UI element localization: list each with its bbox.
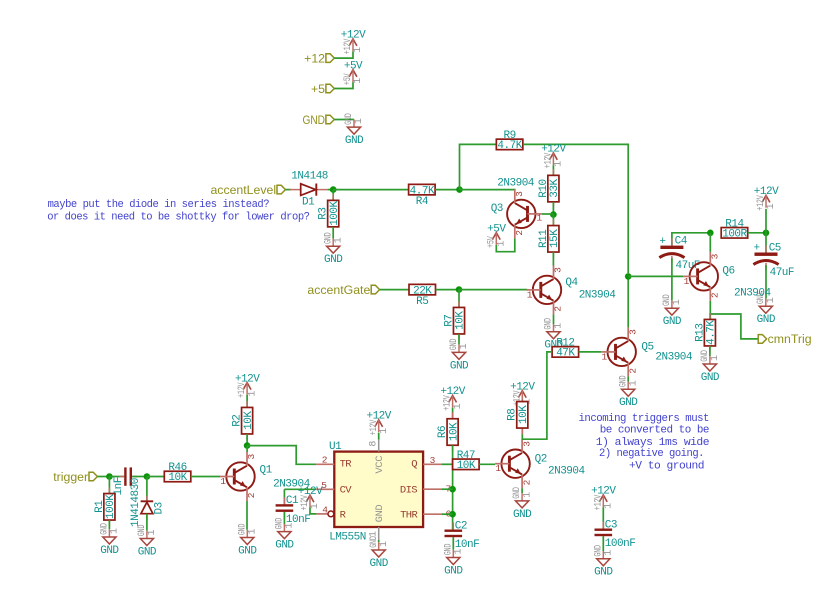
wire D1 cathode to node — [328, 189, 333, 191]
svg-text:GND: GND — [513, 509, 532, 521]
svg-text:GND: GND — [138, 546, 157, 558]
svg-text:2: 2 — [246, 492, 257, 498]
resistor R8 10K — [507, 395, 530, 434]
svg-text:GND: GND — [661, 294, 673, 306]
svg-text:GND: GND — [448, 339, 460, 351]
svg-text:C4: C4 — [675, 236, 688, 248]
svg-text:+: + — [753, 243, 759, 255]
wire R5 to node D — [436, 289, 460, 291]
wire accentGate to R5 — [380, 289, 409, 291]
svg-text:1: 1 — [220, 476, 226, 487]
wire C2 to ground — [452, 537, 454, 549]
op-amp U1 LM555N body — [329, 441, 423, 543]
svg-text:3: 3 — [246, 454, 257, 460]
svg-text:GND: GND — [617, 376, 629, 388]
svg-text:1) always 1ms wide: 1) always 1ms wide — [596, 437, 709, 449]
ground (Q2) — [511, 487, 533, 521]
wire +12V to R pin — [310, 508, 316, 514]
wire +12V to node — [765, 209, 767, 233]
svg-text:GND: GND — [322, 232, 334, 244]
ground (R1) — [98, 523, 120, 557]
svg-text:+V to ground: +V to ground — [629, 461, 704, 473]
wire C1 to CV pin — [284, 488, 316, 490]
wire +5 label to +5V rail — [334, 82, 353, 88]
svg-text:2N3904: 2N3904 — [734, 288, 772, 300]
wire DIS pin to node — [441, 488, 452, 490]
svg-text:3: 3 — [710, 253, 721, 259]
note line 1 — [48, 199, 270, 211]
wire C4 bottom through row to ground — [671, 258, 673, 300]
svg-text:R3: R3 — [318, 207, 330, 219]
svg-text:2N3904: 2N3904 — [579, 290, 617, 302]
svg-text:3: 3 — [521, 441, 532, 447]
svg-text:C5: C5 — [769, 243, 781, 255]
note incoming line 3 — [596, 437, 709, 449]
wire node E down to R1 — [108, 477, 110, 494]
svg-text:GND: GND — [619, 397, 638, 409]
svg-text:1: 1 — [247, 391, 258, 397]
wire R14 to +12V/C5 node — [748, 232, 766, 234]
svg-text:GND: GND — [100, 545, 119, 557]
svg-text:GND: GND — [442, 544, 454, 556]
svg-text:1: 1 — [684, 276, 690, 287]
junction THR node — [449, 511, 456, 518]
wire node to R4 — [333, 189, 408, 191]
resistor R1 100K — [94, 487, 117, 526]
svg-text:GND: GND — [444, 565, 463, 577]
svg-text:cmnTrig: cmnTrig — [768, 332, 812, 346]
svg-text:GND: GND — [303, 113, 326, 127]
svg-text:8: 8 — [369, 441, 380, 447]
svg-text:GND: GND — [368, 536, 380, 548]
svg-text:GND: GND — [592, 545, 604, 557]
svg-text:2N3904: 2N3904 — [655, 352, 693, 364]
wire pin 1 to ground — [378, 540, 380, 542]
svg-text:incoming triggers must: incoming triggers must — [579, 413, 710, 425]
power symbol +5V (Q3) — [485, 223, 507, 248]
capacitor C3 100nF — [595, 520, 636, 551]
wire C1 bottom to ground — [283, 512, 285, 525]
svg-text:C3: C3 — [605, 520, 617, 532]
svg-text:R2: R2 — [232, 415, 244, 427]
wire Q2 emitter to ground — [521, 488, 523, 493]
wire R7 to ground — [458, 334, 460, 345]
ground (Q1) — [236, 524, 258, 558]
svg-text:1: 1 — [554, 323, 565, 329]
svg-text:R9: R9 — [503, 130, 515, 142]
junction node F (cap/D3/R46) — [144, 473, 151, 480]
svg-text:GND: GND — [701, 372, 720, 384]
svg-text:Q4: Q4 — [565, 277, 578, 289]
svg-text:+5V: +5V — [342, 73, 354, 85]
junction DIS node — [449, 486, 456, 493]
svg-text:maybe put the diode in series: maybe put the diode in series instead? — [48, 199, 270, 211]
svg-text:15K: 15K — [549, 229, 561, 248]
svg-text:+12V: +12V — [542, 152, 554, 168]
wire +12 label to +12V rail — [334, 51, 353, 58]
wire GND label to GND symbol — [334, 119, 354, 121]
wire emitter branch to cmnTrig — [710, 314, 758, 339]
wire R11 to Q4 collector — [552, 252, 554, 266]
wire node F to R46 — [147, 476, 164, 478]
transistor Q4 2N3904 — [527, 265, 617, 314]
svg-text:1: 1 — [285, 523, 296, 529]
svg-text:3: 3 — [430, 455, 436, 466]
wire R13 to ground — [709, 346, 711, 356]
svg-text:1: 1 — [628, 380, 639, 386]
svg-text:Q2: Q2 — [535, 453, 547, 465]
ground (R3) — [322, 232, 344, 266]
svg-text:GND: GND — [663, 316, 682, 328]
wire trigger to node E — [97, 476, 109, 478]
hierarchical label accentLevel — [210, 183, 285, 197]
svg-text:CV: CV — [340, 484, 353, 496]
svg-text:1N4148: 1N4148 — [291, 170, 328, 182]
power symbol +12V (top-left) — [341, 30, 366, 55]
note incoming line 4 — [599, 448, 704, 460]
svg-text:+12V: +12V — [342, 38, 354, 54]
wire R10 to node C — [552, 202, 554, 215]
ground (R13) — [699, 350, 721, 384]
wire R47 to Q2 base — [479, 463, 495, 465]
resistor R4 4.7K — [409, 184, 436, 207]
svg-text:1: 1 — [554, 161, 565, 167]
resistor R47 10K — [453, 450, 480, 472]
svg-text:trigger: trigger — [53, 470, 88, 484]
wire node E to cap — [109, 476, 124, 478]
capacitor C2 10nF — [445, 521, 480, 552]
svg-text:R10: R10 — [538, 179, 550, 197]
svg-text:2: 2 — [553, 306, 564, 312]
svg-text:1: 1 — [353, 47, 364, 53]
ground (top-left GND label) — [343, 113, 365, 147]
wire +12V to R10 — [552, 165, 554, 175]
svg-text:Q6: Q6 — [722, 266, 734, 278]
wire Q1 emitter to ground — [246, 501, 248, 530]
wire +12V to R2 — [246, 395, 248, 408]
svg-text:R14: R14 — [725, 219, 744, 231]
svg-text:LM555N: LM555N — [329, 531, 366, 543]
junction node A (R4/R9/Q3) — [456, 186, 463, 193]
pin 2 TR — [316, 455, 334, 466]
svg-text:D3: D3 — [154, 502, 166, 514]
svg-text:10K: 10K — [518, 405, 530, 424]
ground (C3) — [592, 545, 614, 579]
transistor Q3 2N3904 — [491, 178, 543, 239]
svg-text:1: 1 — [369, 531, 380, 537]
ground (555 GND) — [368, 536, 390, 570]
svg-text:4.7K: 4.7K — [706, 320, 718, 345]
svg-text:1: 1 — [110, 528, 121, 534]
svg-text:3: 3 — [553, 267, 564, 273]
svg-text:GND: GND — [343, 113, 355, 125]
svg-text:R7: R7 — [443, 315, 455, 327]
wire node D down to R7 — [458, 290, 460, 308]
svg-text:GND: GND — [238, 545, 257, 557]
svg-text:GND: GND — [236, 524, 248, 536]
wire Q pin to R47 — [441, 463, 453, 465]
svg-text:47uF: 47uF — [770, 267, 794, 279]
wire node D to Q4 base — [459, 289, 527, 291]
svg-text:U1: U1 — [329, 441, 342, 453]
ground (C4) — [661, 294, 683, 328]
wire Q5 emitter to ground — [627, 376, 629, 381]
wire C5 bottom to ground — [765, 265, 767, 298]
resistor R13 4.7K — [694, 313, 717, 352]
svg-text:100nF: 100nF — [605, 538, 636, 550]
svg-text:C2: C2 — [455, 521, 467, 533]
wire THR pin to node — [441, 513, 452, 515]
svg-text:R1: R1 — [94, 500, 106, 513]
svg-text:1: 1 — [497, 241, 508, 247]
power symbol +12V (C3) — [591, 486, 616, 511]
svg-text:+: + — [659, 236, 665, 248]
svg-text:+12V: +12V — [299, 494, 311, 510]
junction D1/R3/R4 — [330, 186, 337, 193]
hierarchical label accentGate — [307, 283, 379, 297]
wire R2 to node G — [246, 434, 248, 446]
wire node B to Q6 base — [628, 275, 683, 277]
hierarchical label GND — [303, 113, 335, 127]
svg-text:1: 1 — [454, 549, 465, 555]
wire Q3 base to node C — [542, 213, 554, 215]
wire R12 left down to Q2 collector node — [522, 352, 552, 439]
svg-text:2: 2 — [322, 455, 328, 466]
junction node E (trigger/R1/C) — [106, 473, 113, 480]
pin 4 R with inversion bubble — [316, 504, 333, 516]
svg-text:1: 1 — [537, 213, 543, 224]
junction node B (rail/Q5/Q6) — [625, 273, 632, 280]
svg-text:3: 3 — [514, 191, 525, 197]
hierarchical label +5 — [311, 82, 334, 96]
resistor R14 100R — [721, 219, 748, 241]
junction node G (R2/Q1 collector/TR) — [244, 442, 251, 449]
resistor R11 15K — [538, 219, 561, 258]
svg-text:1: 1 — [310, 503, 321, 509]
svg-text:100K: 100K — [105, 494, 117, 519]
svg-text:2: 2 — [627, 368, 638, 374]
note line 2 — [47, 212, 309, 224]
svg-text:3: 3 — [627, 329, 638, 335]
pin 5 CV — [316, 480, 334, 491]
wire Q3 emitter to +5V — [496, 238, 515, 251]
svg-text:1: 1 — [353, 78, 364, 84]
wire R8 to Q2 collector — [521, 428, 523, 440]
transistor Q5 2N3904 — [601, 327, 693, 376]
wire +12V to R8 — [521, 400, 523, 402]
svg-text:+5: +5 — [311, 82, 325, 96]
svg-text:or does it need to be shottky: or does it need to be shottky for lower … — [47, 212, 309, 224]
svg-text:R4: R4 — [416, 196, 429, 208]
ground (D3) — [136, 525, 158, 559]
wire node F down to D3 — [146, 477, 148, 502]
pin 8 VCC (hidden power pin) — [369, 440, 380, 452]
svg-text:2N3904: 2N3904 — [548, 466, 586, 478]
resistor R7 10K — [443, 301, 466, 340]
wire R4 to node A — [435, 189, 459, 191]
ground (C1) — [273, 518, 295, 552]
svg-text:2: 2 — [521, 479, 532, 485]
svg-text:10K: 10K — [243, 411, 255, 430]
svg-text:GND: GND — [699, 350, 711, 362]
svg-text:R12: R12 — [556, 338, 574, 350]
wire Q5 collector to node B — [627, 276, 629, 327]
svg-text:R5: R5 — [416, 296, 428, 308]
note incoming line 2 — [600, 425, 709, 437]
pin 1 GND (hidden power pin) — [369, 527, 380, 540]
resistor R3 100K — [318, 194, 341, 233]
ground (Q5) — [617, 376, 639, 410]
wire R9 to right rail down to node B — [523, 144, 628, 273]
wire node A up to R9 — [460, 144, 497, 189]
hierarchical label trigger — [53, 470, 97, 484]
power symbol +5V (top-left) — [342, 61, 364, 86]
svg-text:10K: 10K — [448, 422, 460, 441]
svg-text:R11: R11 — [538, 229, 550, 248]
svg-text:Q5: Q5 — [641, 342, 653, 354]
svg-text:4: 4 — [322, 504, 328, 515]
transistor Q1 2N3904 — [220, 452, 311, 501]
svg-text:1: 1 — [522, 492, 533, 498]
svg-text:+12V: +12V — [442, 395, 454, 411]
resistor R12 47K — [552, 338, 579, 360]
resistor R2 10K — [232, 401, 255, 440]
svg-text:1: 1 — [459, 343, 470, 349]
pin 6 THR — [423, 508, 451, 519]
svg-text:+12V: +12V — [368, 419, 380, 435]
resistor R5 22K — [409, 284, 436, 307]
wire node G to 555 TR pin — [247, 446, 316, 465]
svg-text:Q1: Q1 — [260, 465, 273, 477]
junction R14/+12V/C5 — [763, 230, 770, 237]
svg-text:GND: GND — [345, 135, 364, 147]
svg-text:+12: +12 — [304, 51, 325, 65]
note incoming line 1 — [579, 413, 710, 425]
svg-text:1: 1 — [602, 351, 608, 362]
svg-text:1N414830: 1N414830 — [130, 478, 142, 527]
svg-text:1: 1 — [604, 550, 615, 556]
svg-text:1: 1 — [248, 529, 259, 535]
svg-text:1: 1 — [379, 428, 390, 434]
junction node D (R5/R7/Q4 base) — [456, 286, 463, 293]
svg-text:accentGate: accentGate — [307, 283, 370, 297]
svg-text:33K: 33K — [549, 179, 561, 198]
svg-text:+12V: +12V — [236, 382, 248, 398]
power symbol +12V (R10) — [541, 144, 566, 169]
wire C4 top to rail — [672, 233, 710, 246]
svg-text:1: 1 — [453, 403, 464, 409]
wire node G to Q1 collector — [246, 446, 248, 452]
hierarchical label cmnTrig — [758, 332, 812, 346]
wire node C to R11 — [552, 215, 554, 226]
wire R46 to Q1 base — [191, 476, 220, 478]
svg-text:accentLevel: accentLevel — [210, 183, 276, 197]
wire cap to node F — [132, 476, 147, 478]
svg-text:1: 1 — [147, 530, 158, 536]
svg-text:1: 1 — [710, 355, 721, 361]
ground (Q4) — [542, 318, 564, 352]
svg-text:R46: R46 — [168, 462, 186, 474]
ground (C2) — [442, 544, 464, 578]
svg-text:THR: THR — [400, 510, 418, 522]
power symbol +12V (R6) — [440, 386, 465, 411]
note incoming line 5 — [629, 461, 704, 473]
diode D3 — [141, 496, 166, 521]
wire +12V to pin 8 — [378, 433, 380, 440]
power symbol +12V (555 R pin) — [298, 486, 323, 511]
power symbol +12V (R14/C5) — [754, 186, 779, 211]
capacitor 1nF (input coupling) — [113, 467, 142, 527]
svg-text:10K: 10K — [455, 311, 467, 330]
svg-text:GND: GND — [511, 487, 523, 499]
svg-text:1: 1 — [354, 118, 365, 124]
junction rail/R14/Q6 collector — [707, 230, 714, 237]
wire D3 to ground — [146, 514, 148, 531]
pin 3 Q — [423, 455, 441, 466]
diode D1 — [290, 170, 329, 208]
power symbol +12V (555 VCC) — [366, 411, 391, 436]
transistor Q6 2N3904 — [683, 252, 771, 301]
svg-text:1: 1 — [495, 463, 501, 474]
svg-text:R13: R13 — [694, 324, 706, 342]
wire node to R3 — [332, 190, 334, 201]
resistor R10 33K — [538, 169, 561, 208]
svg-text:+12V: +12V — [755, 195, 767, 211]
svg-text:1: 1 — [766, 203, 777, 209]
pin 7 DIS — [423, 483, 451, 494]
power symbol +12V (R8) — [510, 381, 535, 406]
svg-text:GND: GND — [594, 567, 613, 579]
transistor Q2 2N3904 — [495, 439, 585, 488]
wire C3 to ground — [602, 536, 604, 551]
svg-text:GND: GND — [324, 254, 343, 266]
wire R6 down through Q node to C2 — [452, 445, 454, 529]
resistor R46 10K — [164, 462, 191, 484]
svg-text:GND: GND — [273, 518, 285, 530]
resistor R6 10K — [437, 412, 460, 451]
svg-text:be converted to be: be converted to be — [600, 425, 709, 437]
resistor R9 4.7K — [496, 130, 522, 152]
svg-text:GND: GND — [542, 318, 554, 330]
wire R3 to ground — [332, 227, 334, 239]
wire Q6 emitter to R13 and cmnTrig — [709, 301, 711, 320]
svg-text:R8: R8 — [507, 409, 519, 421]
wire node A to Q3 collector — [460, 189, 515, 191]
wire C1 top stub — [283, 489, 285, 504]
svg-text:GND: GND — [98, 523, 110, 535]
power symbol +12V (R2) — [235, 373, 260, 398]
wire R12 to Q5 base — [579, 351, 602, 353]
svg-text:+5V: +5V — [485, 236, 497, 248]
svg-text:GND: GND — [370, 558, 389, 570]
hierarchical label +12 — [304, 51, 334, 65]
svg-text:Q: Q — [411, 459, 417, 471]
svg-text:GND: GND — [450, 360, 469, 372]
svg-text:R6: R6 — [437, 426, 449, 438]
wire Q6 collector to rail junction — [709, 233, 711, 252]
svg-text:+12V: +12V — [592, 494, 604, 510]
svg-text:1: 1 — [379, 541, 390, 547]
svg-text:2: 2 — [514, 230, 525, 236]
svg-text:100K: 100K — [329, 200, 341, 225]
svg-text:GND: GND — [374, 505, 386, 523]
svg-text:1: 1 — [333, 237, 344, 243]
svg-text:GND: GND — [757, 314, 776, 326]
svg-text:Q3: Q3 — [491, 203, 503, 215]
wire R1 to ground — [108, 520, 110, 529]
svg-text:GND: GND — [136, 525, 148, 537]
capacitor C1 10nF — [276, 495, 311, 526]
